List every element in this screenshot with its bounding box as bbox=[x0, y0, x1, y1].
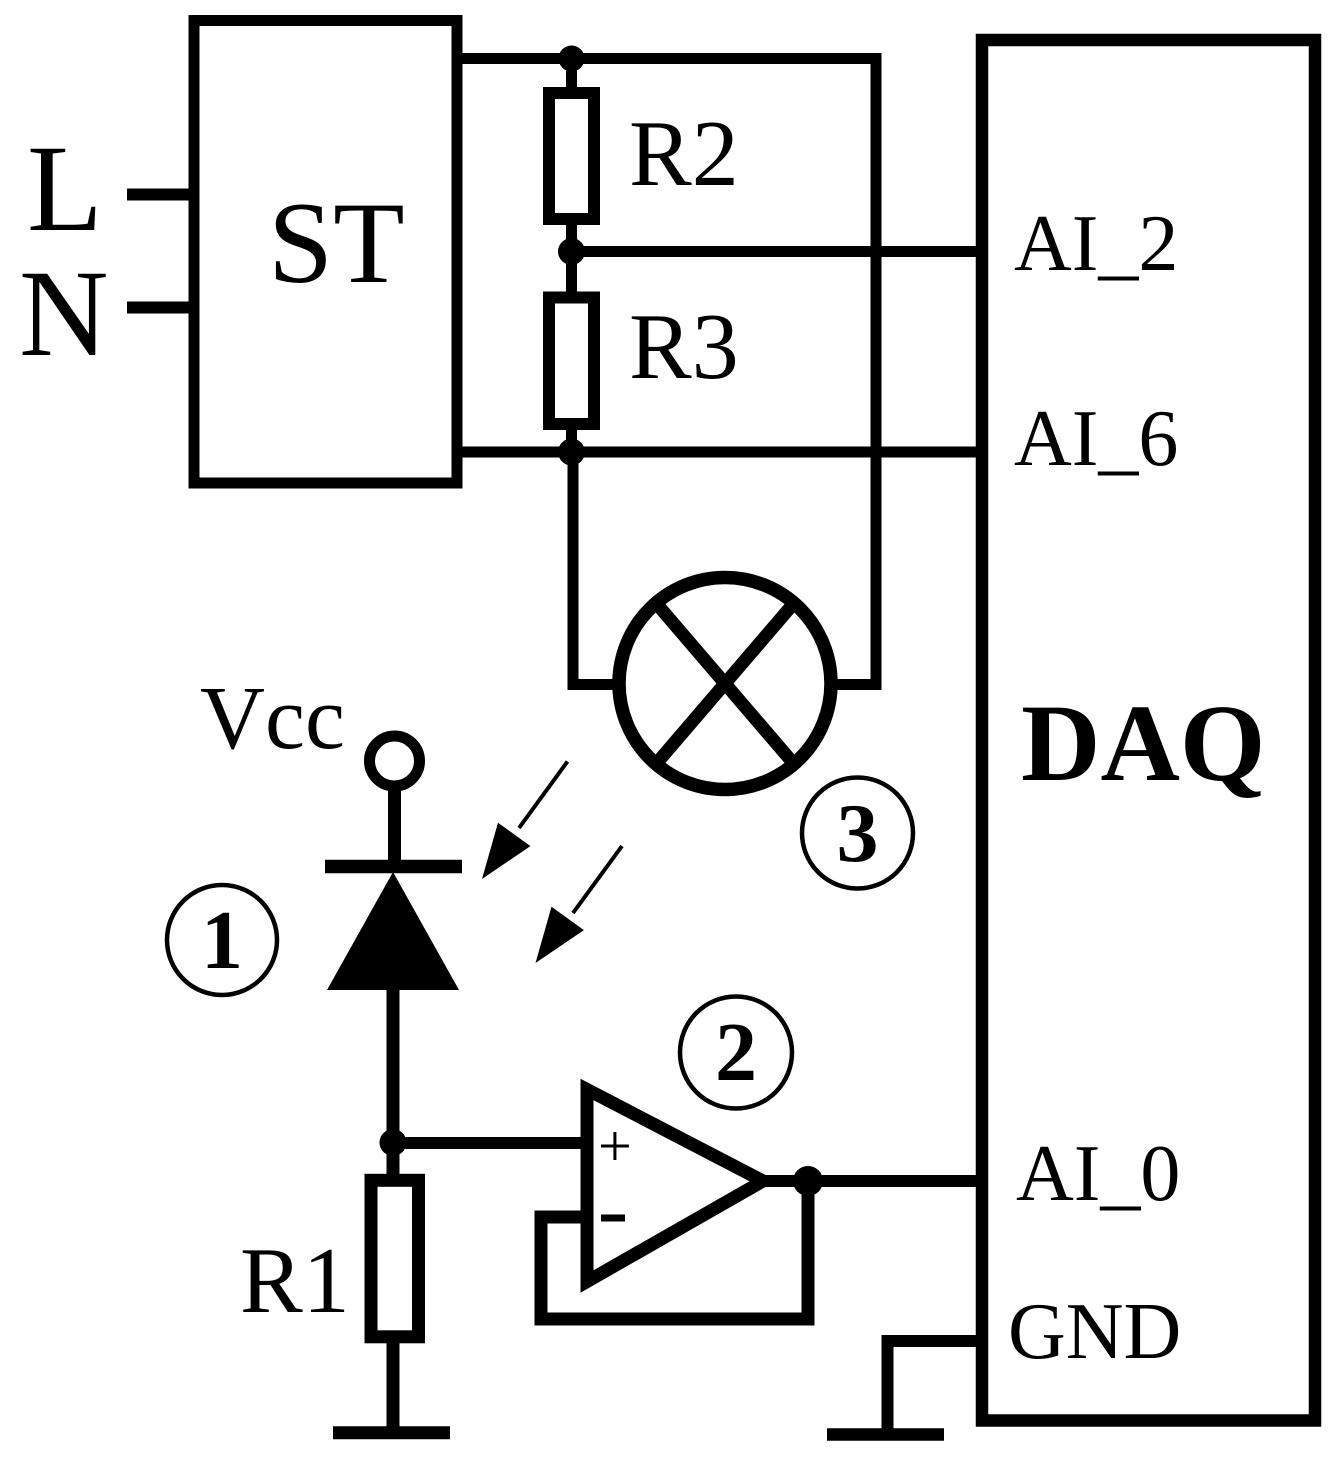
svg-text:+: + bbox=[598, 1113, 632, 1179]
svg-text:AI_0: AI_0 bbox=[1016, 1130, 1180, 1218]
svg-text:GND: GND bbox=[1008, 1288, 1181, 1376]
svg-text:ST: ST bbox=[268, 179, 405, 308]
svg-text:R2: R2 bbox=[629, 102, 739, 206]
svg-text:3: 3 bbox=[837, 787, 879, 880]
svg-text:1: 1 bbox=[201, 894, 243, 987]
svg-text:R1: R1 bbox=[240, 1229, 350, 1333]
svg-text:L: L bbox=[27, 120, 103, 257]
svg-text:DAQ: DAQ bbox=[1021, 682, 1265, 804]
svg-text:N: N bbox=[19, 245, 109, 382]
svg-text:AI_6: AI_6 bbox=[1014, 395, 1178, 483]
svg-text:R3: R3 bbox=[629, 295, 739, 399]
svg-text:AI_2: AI_2 bbox=[1014, 200, 1178, 288]
svg-text:2: 2 bbox=[715, 1006, 757, 1099]
svg-text:Vcc: Vcc bbox=[200, 669, 345, 768]
